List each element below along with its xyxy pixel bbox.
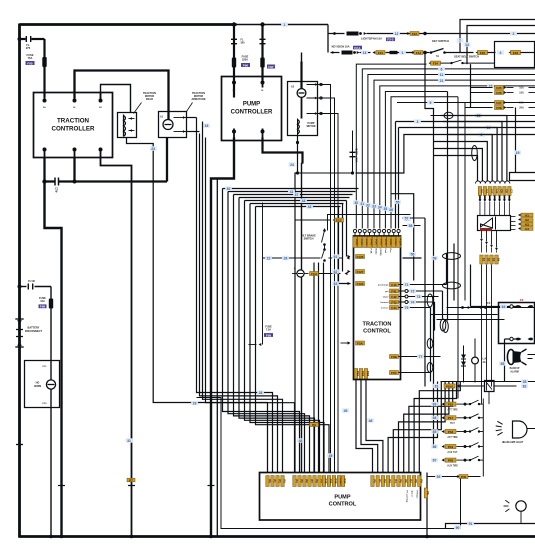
wire row y121 drop to traction pin 9	[395, 122, 397, 229]
wire ammeter to coil	[301, 98, 303, 119]
svg-text:33: 33	[372, 205, 376, 209]
svg-text:PUMP: PUMP	[334, 495, 350, 501]
svg-text:91: 91	[469, 522, 473, 526]
svg-text:85: 85	[433, 430, 437, 434]
wires through loop pair	[447, 241, 449, 321]
wire key switch out to right	[449, 52, 474, 54]
svg-text:83: 83	[433, 403, 437, 407]
svg-text:CONTROLLER: CONTROLLER	[52, 126, 95, 133]
right horizontal row y121	[396, 121, 535, 123]
wire B5 horizontal	[245, 200, 347, 202]
pin R2 traction control right	[390, 289, 399, 293]
wire A4	[206, 138, 295, 473]
svg-text:reverse: reverse	[381, 308, 390, 310]
capacitor C1 on power bus	[45, 180, 56, 182]
pin PC10 pump control	[318, 476, 324, 487]
svg-text:29: 29	[193, 401, 197, 405]
wire right feeder x464	[464, 103, 466, 301]
svg-text:31: 31	[127, 439, 131, 443]
labels on bundle B	[225, 187, 232, 192]
svg-text:F1H: F1H	[311, 272, 317, 276]
wire horizontal y214 sub-bus	[328, 215, 411, 231]
block PUMP CONTROL	[260, 473, 421, 521]
wire key switch feed down-right	[425, 53, 434, 447]
wire traction bottom-2 to bus	[73, 158, 75, 182]
block horn unit	[25, 361, 60, 408]
wire B2 drop to pump control	[228, 192, 305, 473]
svg-text:93: 93	[437, 475, 441, 479]
svg-text:SEAT BELT SWITCH: SEAT BELT SWITCH	[454, 55, 479, 59]
pin PC4 pump control	[281, 476, 287, 487]
svg-text:46: 46	[369, 419, 373, 423]
wire B7 drop to pump control	[256, 207, 330, 473]
wire B1 horizontal	[223, 188, 359, 190]
svg-text:F5A: F5A	[357, 341, 364, 345]
pin PD6 pump control	[397, 476, 403, 487]
svg-text:75: 75	[405, 306, 409, 310]
pin R4 traction control right	[390, 300, 399, 304]
wire pump controller return to left rail bundle	[211, 138, 234, 537]
battery disconnect connector	[17, 320, 22, 324]
wire thick ammeter to bus	[166, 138, 168, 182]
svg-text:300: 300	[241, 42, 246, 45]
pin PD9 pump control	[412, 476, 418, 487]
wire RF1	[388, 382, 437, 473]
wire bus down-left leg	[45, 182, 62, 537]
svg-text:275: 275	[26, 46, 31, 50]
wire RF5	[409, 382, 453, 473]
block horn relay unit	[478, 216, 511, 231]
terminal pump B-	[261, 81, 265, 85]
svg-text:36: 36	[389, 208, 393, 212]
svg-text:H2: H2	[525, 218, 529, 222]
svg-text:CONTROLLER: CONTROLLER	[231, 110, 273, 116]
svg-text:P3: P3	[283, 479, 287, 483]
wire contactor aux contacts to harness	[187, 117, 197, 119]
svg-text:43: 43	[308, 205, 312, 209]
svg-text:35: 35	[523, 380, 527, 384]
wire contact3 to harness	[319, 114, 339, 473]
svg-text:P Raise: P Raise	[416, 491, 418, 500]
wire routed around pump control box	[197, 398, 461, 529]
lamp circuit row 1	[431, 402, 438, 407]
lamp circuit row 2	[431, 416, 438, 421]
pin L2 traction control left	[356, 270, 365, 274]
svg-text:F1C: F1C	[336, 218, 343, 222]
wire lights/fan row	[327, 25, 329, 53]
relay out right	[494, 385, 517, 387]
pin T6 traction control top	[377, 237, 383, 248]
svg-text:F44: F44	[391, 306, 397, 310]
svg-text:75A: 75A	[28, 56, 33, 60]
svg-text:HEADLAMP LIGHT: HEADLAMP LIGHT	[502, 441, 524, 444]
svg-text:TRACTION: TRACTION	[363, 322, 392, 328]
svg-text:2: 2	[513, 32, 515, 36]
pin PC12 pump control	[327, 476, 333, 487]
wire bottom right exit	[446, 524, 535, 529]
wire contact1 to harness	[319, 85, 331, 473]
cluster yellow labels right of horn box	[518, 214, 521, 217]
svg-text:F2-1: F2-1	[354, 46, 361, 50]
wire battery - bottom rail	[19, 535, 535, 538]
pin PC15 pump control	[341, 476, 347, 487]
svg-text:forward: forward	[380, 302, 389, 304]
fuse lights/fan row	[328, 33, 345, 35]
svg-text:41: 41	[290, 190, 294, 194]
wire CP5 feeder	[446, 128, 498, 181]
wire traction control bottom pins drop	[356, 380, 373, 473]
pin R1 traction control right	[390, 283, 399, 287]
loop marker x442	[440, 319, 446, 331]
svg-text:11: 11	[440, 73, 444, 77]
back-up alarm symbol	[505, 500, 509, 503]
loop marker x429 lower	[427, 339, 433, 349]
wire B7 horizontal	[256, 206, 341, 208]
relay drop to lamp rows	[488, 392, 490, 405]
pin T3 traction control top	[363, 237, 369, 248]
wire B1 drop to pump control	[223, 189, 300, 473]
fuse 300A (F96)	[232, 58, 236, 68]
wire pump armature long drop	[302, 164, 303, 473]
right horizontal row y127	[399, 127, 535, 129]
svg-text:B-: B-	[73, 107, 76, 109]
svg-text:P9: P9	[312, 423, 316, 427]
blue labels right pin rows	[403, 282, 410, 287]
wire row y217	[403, 217, 426, 219]
svg-text:1: 1	[284, 23, 286, 27]
wire traction terminal 2 to ammeter feed (thick)	[75, 71, 169, 120]
svg-text:7.5A: 7.5A	[266, 329, 271, 332]
svg-text:F21: F21	[378, 51, 384, 55]
loop marker x445	[443, 321, 449, 333]
pin PD2 pump control	[376, 476, 382, 487]
wire B5 drop to pump control	[245, 201, 320, 473]
labels on L bundle verticals	[353, 200, 360, 205]
wire pump return aux x216 to bottom rail	[216, 179, 218, 537]
wire sub-bus left edge drop x262	[262, 203, 264, 345]
svg-text:325A: 325A	[242, 59, 248, 62]
pin PD3 pump control	[381, 476, 387, 487]
svg-text:F24: F24	[433, 61, 439, 65]
svg-text:Aux 2: Aux 2	[411, 491, 414, 498]
wire contact2 to harness	[319, 98, 335, 473]
wire B2 horizontal	[228, 191, 356, 193]
svg-text:16: 16	[205, 124, 209, 128]
pin L1 traction control left	[356, 255, 365, 259]
label on wire x131	[126, 438, 133, 443]
wire CP3 feeder	[434, 142, 488, 181]
svg-text:30: 30	[354, 201, 358, 205]
pump contactor contact 3	[307, 113, 319, 115]
wire CP6 feeder	[443, 122, 502, 181]
wire L5	[380, 86, 535, 229]
lamp circuit row 4	[431, 444, 438, 449]
wire battery - left rail	[18, 24, 21, 538]
wire junction to battery fuse drop	[298, 172, 353, 174]
bottom ticks and dots on rails	[49, 535, 53, 539]
svg-text:pot: pot	[385, 290, 389, 293]
pin L4 traction control	[356, 341, 365, 345]
svg-text:7: 7	[459, 39, 461, 43]
svg-text:15A: 15A	[519, 92, 524, 95]
pin T7 traction control top	[382, 237, 388, 248]
horn symbol circle	[46, 380, 55, 389]
svg-text:59: 59	[433, 256, 437, 260]
pump control right side wire	[426, 473, 428, 537]
pin PC3 pump control	[276, 476, 282, 487]
pin PC14 pump control	[337, 476, 343, 487]
wire RF3	[399, 382, 446, 473]
wire L6	[385, 92, 447, 229]
pin L3 traction control left	[356, 282, 365, 286]
pin PD10 pump control	[418, 476, 424, 487]
terminal B- traction controller	[74, 93, 76, 103]
pin PD5 pump control	[392, 476, 398, 487]
svg-text:BATTERY: BATTERY	[28, 326, 40, 330]
svg-text:26: 26	[284, 256, 288, 260]
svg-text:F127: F127	[357, 270, 364, 274]
connector CPS hump row	[476, 181, 510, 184]
wires below horn box with arrows	[481, 231, 483, 239]
svg-text:P16: P16	[448, 402, 454, 406]
svg-text:PUMP: PUMP	[243, 102, 260, 108]
svg-text:F22: F22	[480, 51, 486, 55]
wire row y127 drop to traction pin 10	[398, 128, 400, 229]
wire x424 drop	[424, 218, 426, 387]
svg-text:56: 56	[411, 253, 415, 257]
node top bus to pump fuse 2	[260, 22, 264, 26]
ammeter A2 circle	[297, 89, 306, 98]
tick mark left rail	[16, 444, 23, 446]
wire pump contactor vertical from key circuit	[301, 53, 303, 62]
wire hour meter return drop	[504, 339, 506, 382]
pin PD4 pump control	[386, 476, 392, 487]
svg-text:CONTROL: CONTROL	[329, 502, 357, 508]
pin PD8 pump control	[407, 476, 413, 487]
contacts right of ammeter	[174, 117, 187, 119]
svg-text:F125: F125	[357, 255, 364, 259]
block TRACTION CONTROLLER	[34, 93, 113, 158]
svg-text:C7: C7	[509, 189, 513, 193]
row pair connectors y87/y92	[471, 87, 493, 89]
svg-text:P17: P17	[448, 416, 454, 420]
wire CP2 feeder	[434, 149, 483, 181]
right horizontal row y115 with loop marker	[431, 115, 535, 117]
fan area blue labels	[342, 408, 349, 413]
wire B4 horizontal	[239, 197, 350, 199]
pin R5 traction control right	[390, 306, 399, 310]
svg-text:20A: 20A	[519, 107, 524, 110]
fuse FL3 drop	[261, 25, 263, 81]
svg-text:F6: F6	[520, 298, 524, 302]
pump contactor contact 1	[307, 84, 319, 86]
wire row y319	[437, 319, 505, 321]
labels on L bundle rows	[438, 67, 445, 72]
terminal pump bottom-2	[261, 130, 265, 134]
pin T9 traction control top	[392, 237, 398, 248]
svg-text:55: 55	[396, 200, 400, 204]
node left rail fuse branch	[18, 285, 22, 289]
svg-text:P Lowering: P Lowering	[406, 491, 408, 503]
wire pump controller armature feed	[263, 138, 303, 164]
loop marker horizontal x451 y255	[443, 253, 461, 260]
pin PC6 pump control	[298, 476, 304, 487]
svg-text:MOTOR: MOTOR	[307, 125, 316, 128]
svg-text:ARMATURE: ARMATURE	[191, 98, 205, 101]
svg-text:57: 57	[405, 216, 409, 220]
svg-text:P19: P19	[448, 445, 454, 449]
svg-text:precharge: precharge	[378, 285, 389, 287]
svg-text:9: 9	[430, 101, 432, 105]
svg-text:F43: F43	[391, 300, 397, 304]
wire row y314	[431, 314, 498, 316]
svg-text:P10A: P10A	[399, 239, 403, 246]
svg-text:AUX TIRE: AUX TIRE	[447, 464, 458, 467]
wire coil box return via x152 down to pump control	[127, 138, 268, 473]
svg-text:45: 45	[344, 409, 348, 413]
wire right edge jog rows y172-y180	[510, 173, 535, 181]
node battery tap top-left	[18, 37, 22, 41]
svg-text:F27: F27	[496, 101, 502, 105]
svg-text:10A: 10A	[519, 87, 524, 90]
hour meter terminal bottom	[505, 338, 517, 340]
terminal pump B+	[232, 81, 236, 85]
svg-text:65: 65	[501, 362, 505, 366]
svg-text:F23: F23	[513, 51, 519, 55]
svg-text:72: 72	[411, 289, 415, 293]
svg-text:P18: P18	[448, 430, 454, 434]
pump feed wire through contactor	[300, 62, 302, 89]
wire feed to hour meter	[470, 265, 472, 307]
terminal bottom-2 traction controller	[73, 148, 77, 152]
svg-text:31: 31	[360, 202, 364, 206]
node coil return junction	[296, 171, 299, 174]
lamp collector vertical	[482, 404, 484, 476]
pin T2 traction control top	[358, 237, 364, 248]
headlight lamp symbol	[497, 421, 502, 424]
svg-text:B-: B-	[261, 90, 264, 92]
pin R7 traction control	[390, 371, 399, 375]
terminal bottom-3 traction controller	[99, 148, 103, 152]
lamp circuit row 5	[431, 458, 438, 463]
node top bus to pump fuse 1	[232, 22, 236, 26]
wire traction B- to power bus	[43, 158, 45, 182]
svg-text:71: 71	[405, 283, 409, 287]
block TRACTION CONTROL	[354, 236, 401, 380]
pump contactor contact 2	[307, 97, 319, 99]
terminal A1 traction controller	[100, 93, 102, 103]
wire RF2	[393, 382, 441, 473]
svg-text:21: 21	[440, 79, 444, 83]
svg-text:4A: 4A	[483, 361, 486, 364]
pin PC7 pump control	[303, 476, 309, 487]
wires continuing down from connector row	[481, 265, 483, 405]
block PUMP CONTROLLER	[222, 77, 282, 141]
svg-text:F97: F97	[268, 65, 274, 69]
wire RF6	[414, 382, 456, 473]
connector tick + label on wire x131	[128, 485, 135, 487]
pump contactor assembly box	[288, 82, 318, 136]
svg-text:P9: P9	[419, 479, 423, 483]
svg-text:F42: F42	[391, 295, 397, 299]
pin PC5 pump control	[293, 476, 299, 487]
svg-text:D4: D4	[497, 258, 501, 262]
svg-text:22: 22	[267, 256, 271, 260]
svg-text:BACKUP: BACKUP	[510, 367, 520, 370]
svg-text:F2-2: F2-2	[387, 38, 394, 42]
svg-text:63: 63	[334, 282, 338, 286]
wire collector top to relay rows	[482, 399, 484, 405]
wire top bus extension to key switch circuit	[237, 24, 329, 26]
svg-text:48: 48	[299, 439, 303, 443]
wire L1	[356, 64, 426, 228]
pin PC9 pump control	[313, 476, 319, 487]
svg-text:FU 30: FU 30	[28, 280, 35, 283]
svg-text:61: 61	[334, 255, 338, 259]
svg-text:F25: F25	[496, 86, 502, 90]
svg-text:P7: P7	[129, 478, 133, 482]
wire A3	[203, 122, 283, 473]
wire row y381	[441, 381, 535, 383]
svg-text:35: 35	[384, 207, 388, 211]
svg-text:F40: F40	[391, 283, 397, 287]
svg-text:P 4B: P 4B	[370, 249, 373, 254]
pin T10 traction control top	[396, 237, 402, 248]
wire switch column drops	[313, 263, 315, 473]
svg-text:H1: H1	[525, 213, 529, 217]
svg-text:1: 1	[402, 51, 404, 55]
wire fuse branch down	[50, 287, 52, 537]
loop marker pair x429	[427, 294, 433, 307]
wire A2	[200, 134, 278, 473]
loop marker horizontal x451 y285	[443, 282, 461, 289]
label top bus	[281, 22, 288, 27]
svg-text:73: 73	[417, 295, 421, 299]
wire row y225	[403, 225, 421, 227]
svg-text:19: 19	[516, 151, 520, 155]
hour meter terminal top	[471, 306, 517, 308]
lamp circuit row 3	[431, 429, 438, 434]
pin PD1 pump control	[371, 476, 377, 487]
wire connector row y219	[295, 219, 331, 221]
wire CP1 feeder	[434, 156, 478, 181]
svg-text:P14: P14	[343, 479, 347, 484]
svg-text:6: 6	[441, 67, 443, 71]
wire horn row y257	[263, 257, 321, 259]
wire battery + top bus	[20, 23, 237, 26]
wire pump control to lamp collector	[427, 476, 481, 478]
pin T4 traction control top	[367, 237, 373, 248]
svg-text:14: 14	[465, 43, 469, 47]
svg-text:24: 24	[290, 163, 294, 167]
wire right edge vertical x515	[515, 108, 517, 173]
svg-text:82: 82	[523, 384, 527, 388]
svg-text:ALARM: ALARM	[510, 370, 518, 373]
svg-text:AFT TIRE: AFT TIRE	[447, 436, 458, 439]
svg-text:LIGHTS/FAN 15A: LIGHTS/FAN 15A	[361, 36, 382, 40]
tick mark on wire x61	[58, 485, 65, 487]
svg-text:F26: F26	[496, 91, 502, 95]
svg-text:86: 86	[433, 445, 437, 449]
wire L4	[374, 80, 535, 228]
wire row y257 right	[403, 257, 422, 259]
svg-text:P20: P20	[448, 458, 454, 462]
wires from top edge right	[460, 20, 535, 53]
pin PC2 pump control	[271, 476, 277, 487]
connector CPS pin labels	[478, 187, 484, 196]
svg-text:12: 12	[395, 32, 399, 36]
pin T5 traction control top	[372, 237, 378, 248]
